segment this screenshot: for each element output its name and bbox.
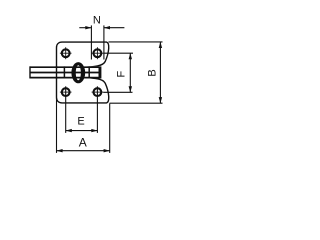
arrow F top: [129, 53, 132, 59]
dimension F: [103, 53, 133, 92]
rod crimp divider right: [88, 66, 90, 78]
dimension B: [109, 42, 163, 103]
dimension E: [66, 86, 98, 133]
svg-text:E: E: [77, 116, 84, 128]
arrow F bottom: [129, 86, 132, 92]
plate outline: [57, 42, 109, 103]
center loop ring: [71, 62, 85, 83]
arrow A right: [104, 149, 110, 152]
hole top-right: [92, 47, 104, 59]
latch rod (bar): [30, 66, 102, 79]
arrow B top: [159, 42, 162, 48]
svg-text:N: N: [93, 15, 101, 27]
hole bottom-left: [60, 88, 72, 96]
svg-text:B: B: [146, 69, 158, 76]
hole bottom-right: [92, 88, 104, 96]
hole top-left: [60, 47, 72, 59]
svg-text:A: A: [79, 136, 87, 150]
arrow N left: [85, 26, 91, 29]
rod crimp divider left: [63, 66, 65, 78]
svg-text:F: F: [116, 71, 128, 78]
arrow E right: [91, 129, 97, 132]
arrow E left: [66, 129, 72, 132]
arrow A left: [56, 149, 62, 152]
dimension N: [79, 25, 124, 59]
plate left edge over rod: [56, 66, 58, 79]
rod right end cap: [99, 66, 102, 78]
arrow N right: [104, 26, 110, 29]
rod left end cap: [29, 66, 31, 78]
arrow B bottom: [159, 97, 162, 103]
dimension A: [57, 98, 110, 153]
